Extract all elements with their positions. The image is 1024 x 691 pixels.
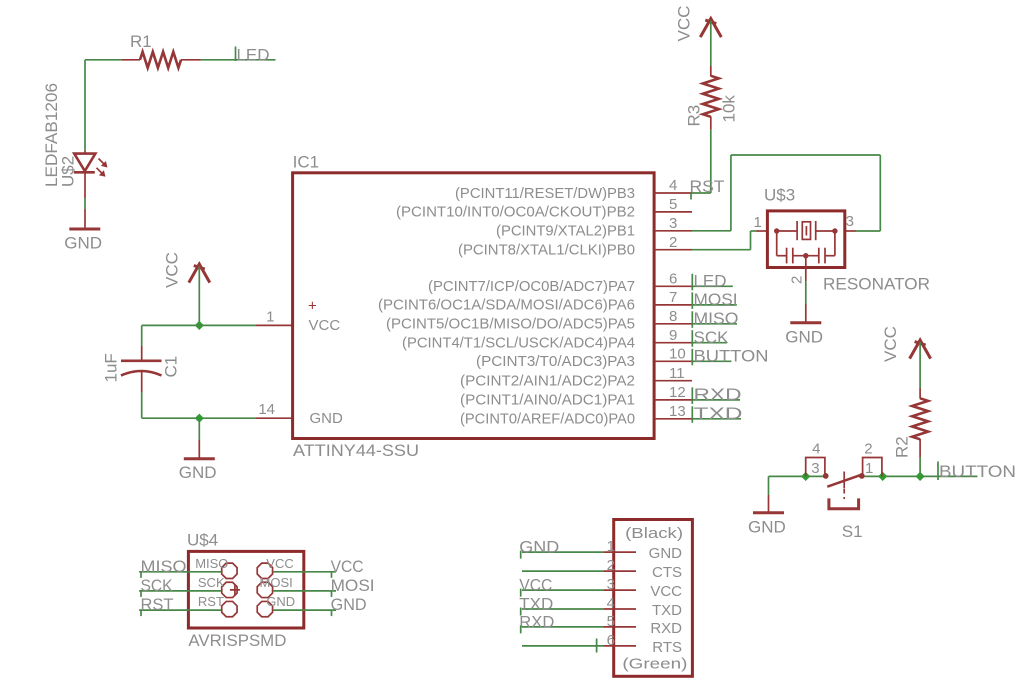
- svg-text:MOSI: MOSI: [260, 575, 293, 590]
- svg-text:VCC: VCC: [881, 326, 900, 362]
- svg-text:GND: GND: [331, 595, 367, 614]
- svg-text:2: 2: [669, 234, 677, 251]
- svg-text:U$3: U$3: [764, 186, 795, 205]
- svg-text:4: 4: [607, 595, 615, 612]
- svg-text:(PCINT3/T0/ADC3)PA3: (PCINT3/T0/ADC3)PA3: [476, 353, 635, 370]
- svg-text:(Green): (Green): [622, 656, 687, 673]
- svg-text:SCK: SCK: [141, 576, 174, 595]
- svg-text:3: 3: [846, 213, 854, 230]
- svg-text:LED: LED: [694, 272, 727, 291]
- svg-text:SCK: SCK: [694, 328, 730, 347]
- svg-text:VCC: VCC: [163, 252, 182, 288]
- svg-text:10: 10: [669, 346, 686, 363]
- svg-text:1uF: 1uF: [102, 353, 121, 382]
- svg-text:TXD: TXD: [694, 404, 743, 423]
- svg-text:GND: GND: [785, 327, 823, 346]
- svg-text:9: 9: [669, 327, 677, 344]
- svg-text:R3: R3: [685, 105, 704, 127]
- svg-text:2: 2: [864, 441, 872, 458]
- svg-text:RXD: RXD: [519, 612, 554, 631]
- svg-text:4: 4: [669, 177, 677, 194]
- svg-text:TXD: TXD: [519, 595, 553, 614]
- svg-text:(PCINT11/RESET/DW)PB3: (PCINT11/RESET/DW)PB3: [455, 185, 635, 202]
- svg-text:5: 5: [607, 613, 615, 630]
- svg-text:RXD: RXD: [694, 385, 742, 404]
- svg-text:TXD: TXD: [652, 602, 682, 619]
- svg-text:GND: GND: [748, 517, 786, 536]
- svg-text:1: 1: [266, 309, 274, 326]
- svg-text:GND: GND: [519, 538, 559, 557]
- svg-text:LED: LED: [237, 45, 270, 64]
- svg-text:14: 14: [258, 401, 275, 418]
- svg-text:1: 1: [865, 460, 873, 477]
- svg-text:GND: GND: [179, 463, 217, 482]
- svg-text:AVRISPSMD: AVRISPSMD: [188, 631, 286, 650]
- svg-text:VCC: VCC: [519, 576, 552, 595]
- svg-text:12: 12: [669, 384, 686, 401]
- svg-text:13: 13: [669, 403, 686, 420]
- svg-text:3: 3: [811, 460, 819, 477]
- svg-text:RXD: RXD: [650, 620, 682, 637]
- svg-text:2: 2: [789, 276, 806, 284]
- svg-text:GND: GND: [64, 234, 102, 253]
- svg-text:(PCINT6/OC1A/SDA/MOSI/ADC6)PA6: (PCINT6/OC1A/SDA/MOSI/ADC6)PA6: [378, 297, 635, 314]
- svg-text:MOSI: MOSI: [694, 290, 738, 309]
- svg-text:RST: RST: [198, 594, 224, 609]
- svg-text:RTS: RTS: [652, 639, 682, 656]
- svg-text:BUTTON: BUTTON: [694, 347, 769, 366]
- svg-text:RESONATOR: RESONATOR: [823, 275, 930, 294]
- svg-text:6: 6: [607, 632, 615, 649]
- svg-text:MOSI: MOSI: [331, 576, 375, 595]
- svg-text:5: 5: [669, 196, 677, 213]
- svg-text:VCC: VCC: [675, 6, 694, 42]
- svg-text:1: 1: [753, 214, 761, 231]
- svg-text:(PCINT4/T1/SCL/USCK/ADC4)PA4: (PCINT4/T1/SCL/USCK/ADC4)PA4: [402, 335, 635, 352]
- svg-text:U$2: U$2: [59, 156, 78, 187]
- svg-text:C1: C1: [162, 356, 181, 378]
- svg-text:VCC: VCC: [309, 317, 341, 334]
- svg-text:RST: RST: [141, 595, 174, 614]
- svg-text:U$4: U$4: [187, 531, 218, 550]
- svg-text:GND: GND: [266, 594, 295, 609]
- svg-text:GND: GND: [310, 410, 344, 427]
- svg-text:8: 8: [669, 308, 677, 325]
- svg-text:R1: R1: [130, 32, 152, 51]
- svg-text:IC1: IC1: [293, 153, 319, 172]
- svg-text:VCC: VCC: [266, 556, 293, 571]
- svg-text:(Black): (Black): [625, 525, 683, 542]
- svg-text:6: 6: [669, 271, 677, 288]
- svg-text:10k: 10k: [720, 95, 739, 123]
- svg-text:3: 3: [607, 576, 615, 593]
- svg-text:MISO: MISO: [141, 557, 187, 576]
- svg-text:2: 2: [607, 557, 615, 574]
- svg-text:VCC: VCC: [650, 583, 682, 600]
- svg-text:MISO: MISO: [195, 556, 228, 571]
- svg-text:ATTINY44-SSU: ATTINY44-SSU: [293, 441, 419, 460]
- svg-text:(PCINT7/ICP/OC0B/ADC7)PA7: (PCINT7/ICP/OC0B/ADC7)PA7: [428, 278, 635, 295]
- svg-text:MISO: MISO: [694, 309, 739, 328]
- svg-text:11: 11: [669, 365, 685, 382]
- svg-text:(PCINT1/AIN0/ADC1)PA1: (PCINT1/AIN0/ADC1)PA1: [460, 392, 635, 409]
- svg-text:GND: GND: [649, 545, 683, 562]
- svg-text:3: 3: [669, 215, 677, 232]
- svg-text:(PCINT2/AIN1/ADC2)PA2: (PCINT2/AIN1/ADC2)PA2: [460, 373, 635, 390]
- svg-text:VCC: VCC: [331, 557, 364, 576]
- svg-text:4: 4: [812, 441, 820, 458]
- svg-text:(PCINT5/OC1B/MISO/DO/ADC5)PA5: (PCINT5/OC1B/MISO/DO/ADC5)PA5: [386, 316, 635, 333]
- svg-text:(PCINT0/AREF/ADC0)PA0: (PCINT0/AREF/ADC0)PA0: [460, 411, 635, 428]
- svg-text:R2: R2: [893, 436, 912, 458]
- svg-text:CTS: CTS: [652, 564, 682, 581]
- svg-text:SCK: SCK: [198, 575, 225, 590]
- svg-text:S1: S1: [842, 522, 863, 541]
- svg-text:RST: RST: [690, 177, 725, 196]
- svg-text:(PCINT9/XTAL2)PB1: (PCINT9/XTAL2)PB1: [496, 223, 635, 240]
- svg-text:BUTTON: BUTTON: [939, 462, 1016, 481]
- svg-text:(PCINT10/INT0/OC0A/CKOUT)PB2: (PCINT10/INT0/OC0A/CKOUT)PB2: [396, 204, 635, 221]
- svg-text:1: 1: [607, 538, 615, 555]
- svg-text:+: +: [308, 298, 317, 315]
- svg-text:7: 7: [669, 289, 677, 306]
- svg-text:(PCINT8/XTAL1/CLKI)PB0: (PCINT8/XTAL1/CLKI)PB0: [458, 242, 635, 259]
